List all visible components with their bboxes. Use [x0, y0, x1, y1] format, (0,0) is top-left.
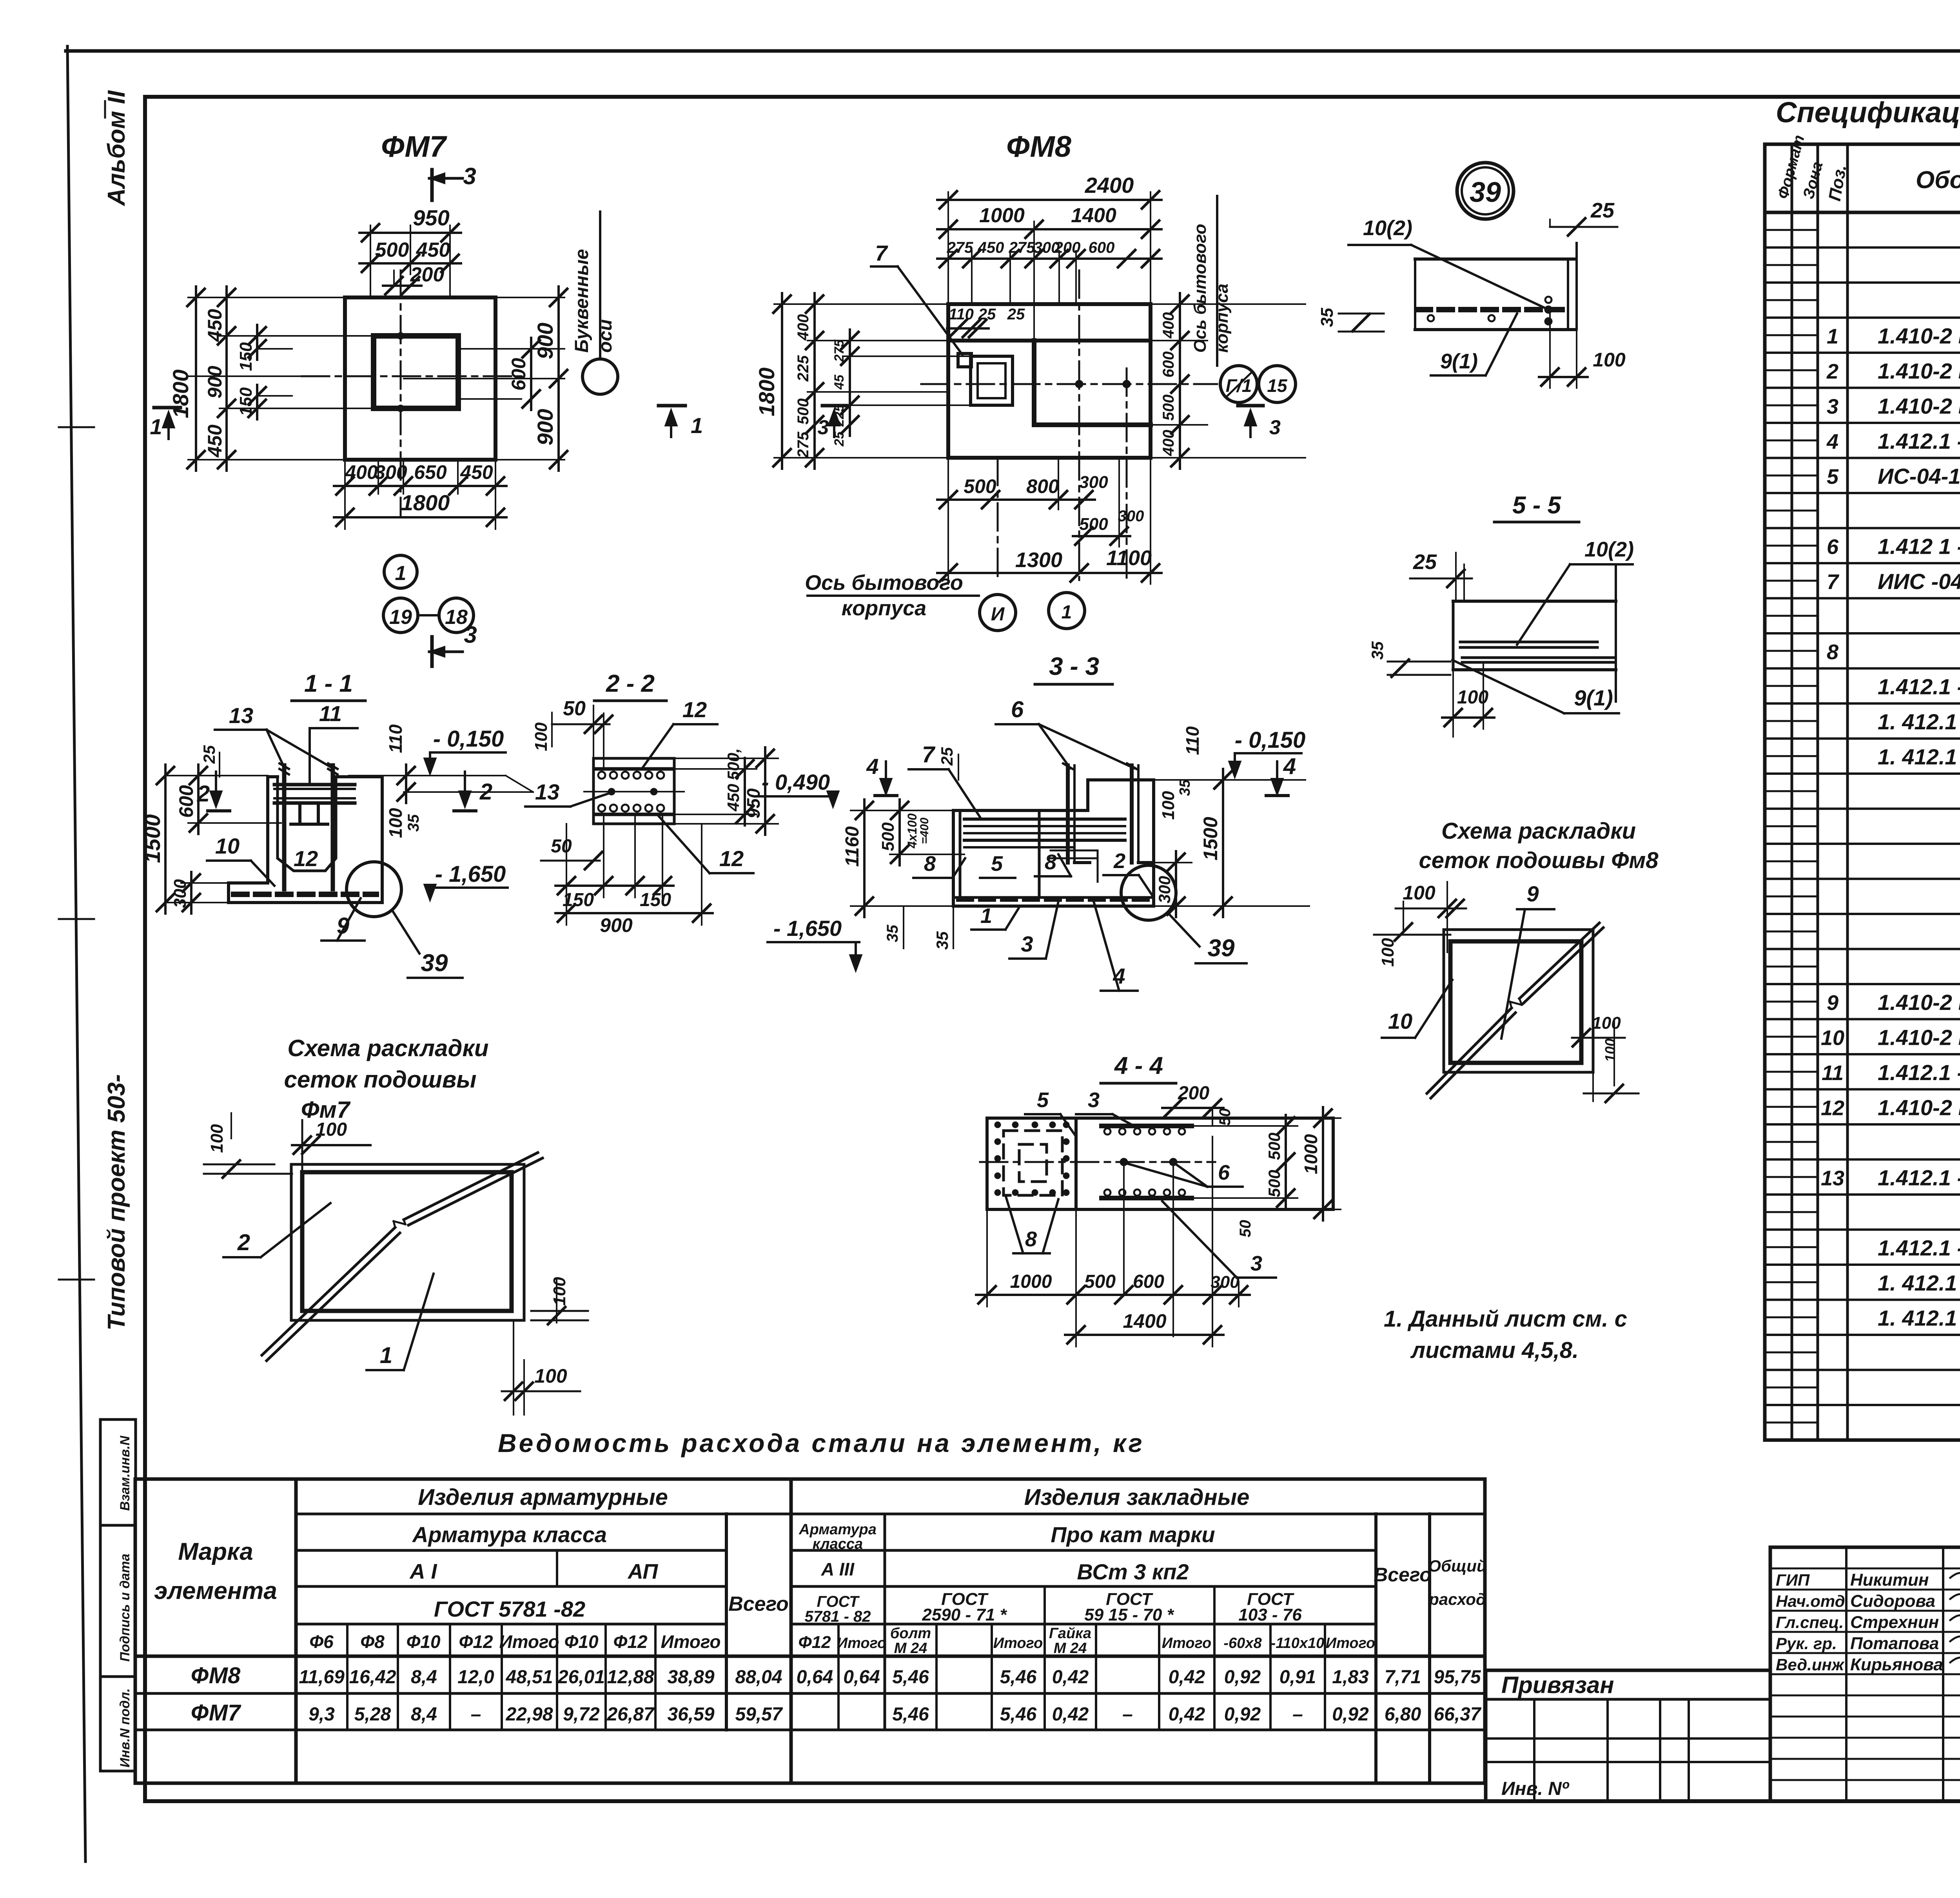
svg-text:22,98: 22,98 — [505, 1704, 553, 1725]
FM7 left extension lines — [188, 297, 374, 460]
svg-text:5: 5 — [991, 852, 1003, 876]
FM8 left chain 400 225 500 275 — [795, 293, 823, 469]
section 1-1 mesh 11 horizontal bars — [274, 785, 355, 803]
svg-text:59 15 - 70 *: 59 15 - 70 * — [1084, 1605, 1174, 1624]
svg-text:1: 1 — [1062, 602, 1072, 623]
svg-text:9: 9 — [1827, 991, 1838, 1015]
svg-text:103 - 76: 103 - 76 — [1238, 1605, 1302, 1624]
section 3-3 label 7 pointer top — [0, 0, 0, 0]
svg-text:4: 4 — [866, 754, 878, 779]
svg-text:10: 10 — [1821, 1026, 1844, 1050]
section 5-5 label 10(2) — [1517, 538, 1634, 645]
svg-text:0,92: 0,92 — [1224, 1667, 1261, 1688]
svg-text:400: 400 — [1160, 312, 1177, 339]
svg-text:25: 25 — [1413, 550, 1437, 574]
svg-text:1000: 1000 — [1301, 1134, 1321, 1174]
mesh layout FM7 dim 100 right — [531, 1277, 588, 1324]
mesh layout FM7 caption — [284, 1035, 489, 1123]
svg-text:8,4: 8,4 — [411, 1704, 437, 1725]
specification table title — [1776, 96, 1960, 129]
svg-text:950: 950 — [413, 205, 449, 230]
svg-text:150: 150 — [563, 890, 594, 910]
svg-text:расход: расход — [1428, 1590, 1486, 1608]
svg-text:4: 4 — [1283, 754, 1296, 779]
section 2-2 right dims 450 500 950 — [674, 747, 778, 835]
plan FM7 title — [381, 130, 448, 163]
node 39 label 10(2) — [1348, 216, 1548, 310]
mesh layout FM7 label 1 — [367, 1274, 434, 1370]
FM8 column cup double rect — [971, 356, 1013, 405]
section 5-5 dim 100 — [1442, 662, 1494, 737]
title block staff names — [1776, 1570, 1960, 1674]
svg-text:0,64: 0,64 — [843, 1667, 880, 1688]
section 1-1 label 12 — [294, 846, 318, 871]
FM8 section mark 3 right — [1238, 406, 1281, 439]
svg-text:5781 - 82: 5781 - 82 — [804, 1608, 871, 1625]
svg-text:Изделия арматурные: Изделия арматурные — [418, 1485, 668, 1510]
svg-text:450: 450 — [204, 309, 226, 342]
svg-text:0,42: 0,42 — [1052, 1704, 1089, 1725]
section 3-3 level -1.650 left — [768, 906, 904, 972]
mesh layout FM7 inner mesh 2 — [302, 1172, 512, 1311]
mesh layout FM8 inner mesh 10 — [1450, 941, 1581, 1063]
margin text: Типовой проект 503- — [103, 1074, 130, 1331]
svg-text:1.412.1 - 4.050: 1.412.1 - 4.050 — [1878, 1060, 1960, 1085]
svg-text:ГИП: ГИП — [1776, 1571, 1810, 1589]
FM7 dim 400 300 650 450 — [334, 461, 506, 495]
svg-text:900: 900 — [600, 914, 633, 936]
specification table rows text — [1821, 218, 1960, 1401]
svg-text:1. Данный лист см. с: 1. Данный лист см. с — [1384, 1306, 1627, 1332]
FM7 center dots — [397, 332, 404, 412]
mesh layout FM7 diagonal — [262, 1153, 543, 1361]
svg-text:25: 25 — [938, 747, 956, 766]
svg-text:8: 8 — [924, 852, 936, 876]
svg-text:6: 6 — [1218, 1161, 1230, 1184]
section 3-3 level -0.490 left — [757, 770, 839, 808]
section 5-5 title — [1494, 492, 1579, 522]
svg-text:150: 150 — [236, 387, 256, 416]
svg-text:4 - 4: 4 - 4 — [1114, 1052, 1163, 1079]
section 2-2 bottom mesh with studs — [597, 805, 671, 814]
svg-text:500: 500 — [1265, 1170, 1283, 1197]
svg-text:300: 300 — [374, 461, 407, 483]
mesh layout FM7 label 2 — [223, 1203, 330, 1257]
svg-text:Ф10: Ф10 — [406, 1632, 440, 1652]
svg-text:1800: 1800 — [754, 368, 779, 417]
svg-text:25: 25 — [200, 745, 218, 764]
section 3-3 bottom mesh — [958, 897, 1151, 902]
FM7 dim 150 150 left — [236, 325, 292, 419]
FM8 step line — [948, 339, 1151, 343]
svg-text:АП: АП — [627, 1560, 659, 1583]
svg-text:100: 100 — [207, 1124, 227, 1153]
svg-text:25: 25 — [1007, 306, 1025, 323]
section 2-2 label 12 top — [643, 697, 717, 767]
specification table column headers — [1774, 133, 1960, 203]
svg-text:225: 225 — [795, 355, 812, 382]
svg-text:класса: класса — [813, 1536, 863, 1552]
svg-text:2: 2 — [237, 1230, 250, 1255]
svg-text:8: 8 — [1827, 640, 1838, 664]
svg-text:450: 450 — [204, 424, 226, 458]
section 4-4 contour — [987, 1118, 1333, 1209]
section 5-5 slab contour — [1453, 564, 1616, 702]
FM8 dim 2400 — [937, 173, 1161, 208]
node 39 mesh hooks — [1428, 297, 1552, 325]
svg-text:300: 300 — [1079, 473, 1108, 492]
svg-text:1300: 1300 — [1015, 548, 1062, 572]
svg-text:7: 7 — [922, 742, 936, 767]
svg-text:0,64: 0,64 — [797, 1667, 833, 1688]
svg-text:3 - 3: 3 - 3 — [1049, 652, 1099, 680]
FM7 bottom extension lines — [345, 460, 495, 529]
svg-text:1: 1 — [1827, 325, 1838, 348]
FM7 section mark 3 top — [429, 163, 476, 200]
FM8 axis text Ось бытового корпуса right — [1191, 196, 1232, 366]
section 3-3 dim 35 bottom left — [933, 906, 953, 950]
svg-text:=400: =400 — [918, 818, 931, 844]
section 4-4 bottom mesh — [1102, 1189, 1192, 1198]
svg-text:2: 2 — [1113, 849, 1125, 873]
svg-text:16,42: 16,42 — [349, 1667, 396, 1688]
svg-text:100: 100 — [534, 1365, 567, 1387]
svg-text:900: 900 — [533, 323, 557, 359]
svg-text:100: 100 — [1592, 1013, 1621, 1033]
svg-text:Итого: Итого — [661, 1632, 721, 1652]
svg-text:6,80: 6,80 — [1385, 1704, 1421, 1725]
svg-text:1800: 1800 — [168, 370, 193, 419]
section 4-4 label 8 — [1005, 1195, 1058, 1253]
svg-text:600: 600 — [1133, 1271, 1164, 1292]
svg-text:Инв.N подл.: Инв.N подл. — [118, 1688, 132, 1767]
specification table grid — [1765, 144, 1960, 1440]
svg-text:38,89: 38,89 — [667, 1667, 714, 1688]
section 4-4 left cup corner bars — [995, 1122, 1069, 1196]
svg-text:12: 12 — [1821, 1097, 1844, 1120]
FM8 small embed plate — [958, 353, 971, 367]
svg-text:25: 25 — [1590, 199, 1615, 222]
svg-text:Итого: Итого — [837, 1635, 886, 1651]
svg-text:7,71: 7,71 — [1385, 1667, 1421, 1688]
FM8 dim 1800 left — [754, 293, 791, 469]
section 4-4 right dims 500 500 1000 50 — [1192, 1107, 1341, 1237]
note text — [1384, 1306, 1627, 1363]
svg-text:1.410-2 вып.1: 1.410-2 вып.1 — [1878, 359, 1960, 383]
svg-text:1. 412.1 -4.080 -02: 1. 412.1 -4.080 -02 — [1878, 1306, 1960, 1331]
FM7 dim 600 right — [508, 338, 540, 410]
section 4-4 title — [1101, 1052, 1176, 1083]
svg-text:Итого: Итого — [499, 1632, 559, 1652]
svg-text:100: 100 — [550, 1277, 569, 1306]
section 4-4 label 6 — [1126, 1161, 1243, 1187]
mesh layout FM8 dim 100 top — [1396, 882, 1466, 952]
FM7 centerlines — [302, 270, 521, 517]
svg-text:2: 2 — [1826, 360, 1838, 383]
svg-text:50: 50 — [563, 697, 586, 720]
svg-text:100: 100 — [1593, 349, 1626, 371]
svg-text:5,46: 5,46 — [1000, 1667, 1037, 1688]
svg-text:1500: 1500 — [1200, 817, 1221, 860]
mesh layout FM7 dim 100 top — [292, 1119, 370, 1176]
svg-text:болт: болт — [890, 1625, 931, 1642]
svg-text:1,83: 1,83 — [1332, 1667, 1369, 1688]
svg-text:500,: 500, — [724, 748, 742, 780]
svg-text:Арматура класса: Арматура класса — [412, 1522, 607, 1547]
svg-text:200: 200 — [410, 263, 445, 286]
section 2-2 dim 50 bottom — [541, 836, 602, 869]
svg-text:500: 500 — [964, 475, 996, 497]
section 3-3 label 6 — [996, 697, 1134, 768]
svg-text:100: 100 — [1403, 882, 1436, 904]
svg-text:5,46: 5,46 — [1000, 1704, 1037, 1725]
FM8 dim 1000 1400 — [937, 204, 1161, 238]
inventory strip (Взам.инв / Подпись и дата / Инв.N подл) — [100, 1419, 136, 1771]
svg-text:10(2): 10(2) — [1363, 216, 1412, 240]
svg-text:9,3: 9,3 — [309, 1704, 335, 1725]
svg-text:Арматура: Арматура — [799, 1521, 877, 1538]
section 1-1 node circle 39 — [347, 862, 419, 954]
svg-text:6: 6 — [1827, 535, 1839, 559]
svg-text:300: 300 — [1155, 876, 1174, 903]
svg-text:0,91: 0,91 — [1279, 1667, 1316, 1688]
svg-text:- 1,650: - 1,650 — [773, 916, 842, 941]
FM7 axis circle (letter axis) — [583, 359, 618, 394]
svg-text:11,69: 11,69 — [299, 1667, 345, 1688]
section 4-4 bottom dims 1000 500 600 300 1400 — [976, 1137, 1250, 1347]
svg-text:2 - 2: 2 - 2 — [606, 670, 655, 697]
svg-text:450: 450 — [724, 784, 742, 812]
mesh layout FM7 dim 100 bottom — [502, 1320, 580, 1415]
svg-text:Привязан: Привязан — [1501, 1672, 1614, 1698]
svg-text:1 - 1: 1 - 1 — [304, 670, 353, 697]
svg-text:48,51: 48,51 — [505, 1667, 553, 1688]
svg-text:Про кат марки: Про кат марки — [1051, 1522, 1215, 1547]
svg-text:ИИС -04-1 вып. 6: ИИС -04-1 вып. 6 — [1878, 569, 1960, 594]
svg-text:50: 50 — [1216, 1108, 1234, 1126]
svg-text:Схема раскладки: Схема раскладки — [287, 1035, 488, 1061]
svg-text:Спецификация: Спецификация — [1776, 96, 1960, 129]
svg-text:Марка: Марка — [178, 1538, 253, 1565]
svg-text:2590 - 71 *: 2590 - 71 * — [922, 1605, 1007, 1624]
section 1-1 cup inner walls — [278, 777, 336, 871]
mesh layout FM8 label 10 — [1382, 980, 1452, 1038]
svg-text:100: 100 — [1159, 791, 1178, 820]
margin text: Альбом II — [103, 90, 130, 207]
svg-text:Схема раскладки: Схема раскладки — [1441, 818, 1636, 844]
FM7 dim 900 900 right — [533, 286, 567, 471]
svg-text:300: 300 — [1118, 508, 1144, 525]
FM8 axis circles Г/1 and 15 — [1220, 366, 1296, 402]
svg-text:ФМ7: ФМ7 — [381, 130, 448, 163]
svg-text:0,92: 0,92 — [1224, 1704, 1261, 1725]
svg-text:корпуса: корпуса — [842, 596, 926, 620]
svg-text:36,59: 36,59 — [667, 1704, 714, 1725]
section 3-3 node circle 39 — [1121, 865, 1247, 963]
section 1-1 label 13 — [215, 703, 331, 767]
mesh layout FM8 caption — [1419, 818, 1659, 873]
svg-text:–: – — [471, 1704, 481, 1725]
FM7 axis circles 1 19 18 — [383, 555, 474, 633]
svg-text:1: 1 — [980, 904, 992, 928]
sheet left paper edge — [59, 46, 94, 1862]
svg-text:3: 3 — [463, 163, 476, 189]
svg-text:Инв. Nº: Инв. Nº — [1501, 1778, 1570, 1799]
svg-text:ГОСТ 5781 -82: ГОСТ 5781 -82 — [434, 1597, 585, 1621]
svg-text:- 0,150: - 0,150 — [1235, 727, 1306, 753]
svg-text:И: И — [991, 604, 1005, 625]
svg-text:100: 100 — [385, 808, 406, 838]
section 2-2 dim 100 rotated — [532, 712, 552, 751]
FM8 left extension lines — [774, 304, 971, 458]
svg-text:Стрехнин: Стрехнин — [1850, 1613, 1939, 1632]
section 1-1 vertical rebars 13 — [279, 763, 338, 889]
steel table grid — [135, 1479, 1485, 1783]
svg-text:500: 500 — [795, 399, 812, 425]
svg-text:10: 10 — [1388, 1009, 1412, 1033]
svg-text:275: 275 — [832, 339, 847, 363]
svg-text:450: 450 — [460, 461, 493, 483]
svg-text:2400: 2400 — [1085, 173, 1134, 198]
svg-text:275: 275 — [947, 239, 973, 256]
svg-text:400: 400 — [1160, 430, 1177, 457]
section 1-1 top extension lines right — [349, 776, 533, 792]
section 1-1 label 9 — [321, 898, 365, 941]
svg-text:Ф10: Ф10 — [564, 1632, 598, 1652]
FM7 dim 450 900 450 left — [204, 286, 235, 471]
node 39 dim 100 bottom — [1539, 310, 1626, 388]
svg-text:5,46: 5,46 — [892, 1667, 929, 1688]
FM7 section mark 1 right — [659, 406, 703, 438]
svg-text:Типовой проект 503-: Типовой проект 503- — [103, 1074, 130, 1331]
FM8 dim 500 300 second row — [1073, 508, 1144, 545]
svg-text:13: 13 — [229, 703, 253, 728]
svg-text:ФМ8: ФМ8 — [191, 1663, 241, 1688]
svg-text:12: 12 — [719, 846, 744, 871]
svg-text:39: 39 — [1470, 177, 1501, 208]
svg-text:ВСт 3 кп2: ВСт 3 кп2 — [1077, 1559, 1189, 1584]
svg-text:900: 900 — [533, 409, 557, 445]
section 2-2 label 13 — [525, 780, 612, 807]
section 2-2 dim 50 top — [552, 697, 612, 769]
svg-text:600: 600 — [508, 358, 530, 391]
svg-text:1.412.1 - 4.080: 1.412.1 - 4.080 — [1878, 1236, 1960, 1260]
FM8 section mark 3 left — [818, 406, 847, 439]
svg-text:–: – — [1292, 1704, 1303, 1725]
svg-text:900: 900 — [204, 366, 226, 399]
svg-text:4x100: 4x100 — [905, 813, 919, 848]
svg-text:400: 400 — [345, 461, 378, 483]
section 4-4 label 3 — [1076, 1088, 1137, 1128]
svg-text:600: 600 — [175, 785, 197, 818]
svg-text:400: 400 — [795, 314, 812, 341]
section 5-5 label 9(1) — [1452, 660, 1619, 713]
FM7 section mark 1 left — [150, 408, 180, 439]
FM7 axis label Буквенные оси — [572, 212, 616, 359]
svg-text:13: 13 — [535, 780, 559, 804]
svg-text:1000: 1000 — [1010, 1271, 1052, 1292]
svg-text:19: 19 — [389, 606, 412, 629]
svg-text:800: 800 — [1026, 475, 1059, 497]
svg-text:150: 150 — [236, 342, 256, 371]
svg-text:110: 110 — [949, 306, 974, 323]
svg-text:М 24: М 24 — [894, 1640, 927, 1657]
svg-text:Фм7: Фм7 — [301, 1097, 351, 1123]
svg-text:10(2): 10(2) — [1584, 538, 1634, 561]
section 3-3 right hook bars 6 — [1063, 763, 1153, 863]
svg-text:0,42: 0,42 — [1169, 1704, 1205, 1725]
svg-text:1: 1 — [380, 1343, 392, 1368]
svg-text:1800: 1800 — [401, 490, 450, 515]
svg-text:3: 3 — [1827, 395, 1838, 419]
svg-text:50: 50 — [551, 836, 572, 857]
svg-text:66,37: 66,37 — [1434, 1704, 1481, 1725]
svg-text:сеток подошвы: сеток подошвы — [284, 1066, 477, 1093]
node 39 dim 35 left — [1318, 308, 1384, 332]
svg-text:500: 500 — [1079, 515, 1108, 534]
svg-text:12: 12 — [682, 697, 707, 722]
section 2-2 label 12 bottom — [659, 816, 753, 873]
FM7 dim 950 — [359, 205, 461, 241]
section 3-3 label 1 3 4 bottom — [971, 901, 1138, 991]
section 4-4 dim 200 50 — [1162, 1083, 1234, 1126]
section 3-3 left dims 1160 500 — [842, 799, 964, 917]
FM7 outer contour 1800x1800 — [345, 297, 495, 460]
svg-text:ФМ8: ФМ8 — [1006, 130, 1072, 163]
svg-text:8,4: 8,4 — [411, 1667, 437, 1688]
svg-text:-60х8: -60х8 — [1223, 1635, 1262, 1651]
svg-text:4: 4 — [1826, 430, 1838, 453]
steel table headers — [154, 1485, 1487, 1657]
steel table title — [498, 1428, 1145, 1457]
section 3-3 dims 25 110 level -0.150 right — [938, 726, 1305, 780]
svg-text:Ф12: Ф12 — [798, 1633, 831, 1652]
FM8 label 7 leader — [871, 241, 962, 355]
svg-text:Вед.инж: Вед.инж — [1776, 1655, 1845, 1674]
svg-text:1.412.1 - 4. 060: 1.412.1 - 4. 060 — [1878, 1166, 1960, 1190]
svg-text:9: 9 — [1526, 881, 1539, 906]
node 39 dim 25 — [1550, 199, 1617, 236]
svg-text:корпуса: корпуса — [1212, 284, 1232, 353]
svg-text:5: 5 — [1037, 1088, 1049, 1112]
svg-text:Всего: Всего — [1374, 1564, 1432, 1586]
mesh layout FM8 outer mesh 9 — [1444, 930, 1593, 1072]
svg-text:1. 412.1 - 4.080 -01: 1. 412.1 - 4.080 -01 — [1878, 1271, 1960, 1295]
FM8 right extension lines — [1151, 304, 1305, 458]
svg-text:3: 3 — [464, 622, 477, 648]
svg-text:110: 110 — [1182, 726, 1203, 755]
svg-text:35: 35 — [1368, 641, 1387, 660]
svg-text:39: 39 — [1208, 935, 1235, 962]
svg-text:7: 7 — [1827, 570, 1840, 594]
svg-text:Рук. гр.: Рук. гр. — [1776, 1634, 1837, 1653]
svg-text:М 24: М 24 — [1054, 1640, 1087, 1657]
svg-text:1500: 1500 — [140, 814, 165, 863]
svg-text:1.412.1 - 4. 080: 1.412.1 - 4. 080 — [1878, 674, 1960, 699]
mesh layout FM7 outer mesh 1 — [291, 1164, 524, 1320]
svg-text:11: 11 — [1822, 1061, 1844, 1085]
FM8 axis note Ось бытового корпуса bottom — [805, 571, 979, 620]
sheet outer top edge line — [66, 49, 1960, 53]
svg-text:9: 9 — [337, 913, 349, 939]
svg-text:12,88: 12,88 — [607, 1667, 654, 1688]
mesh layout FM8 diagonal — [1427, 923, 1603, 1098]
svg-text:13: 13 — [1821, 1167, 1844, 1190]
svg-text:600: 600 — [1160, 352, 1177, 378]
title block staff table — [1770, 1547, 1960, 1801]
FM7 dim 500 450 — [359, 239, 461, 272]
svg-text:26,87: 26,87 — [606, 1704, 655, 1725]
